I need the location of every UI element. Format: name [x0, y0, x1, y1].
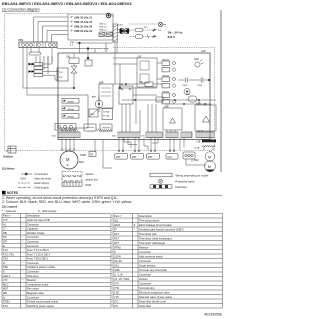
- svg-text:Connector: Connector: [139, 281, 151, 285]
- pilot lamp HAP: [194, 58, 203, 67]
- svg-text:M1F: M1F: [3, 287, 9, 291]
- fuse F3U on bus: [139, 82, 153, 87]
- capacitor C505: [178, 78, 197, 88]
- svg-text:4D139955E: 4D139955E: [204, 313, 223, 317]
- svg-text:Pilot lamp: Pilot lamp: [27, 274, 39, 278]
- connector row X5M:A: [70, 16, 93, 20]
- svg-text:DC: DC: [3, 235, 7, 239]
- terminal strip S70: [141, 132, 163, 138]
- svg-text:Q1DI: Q1DI: [118, 25, 123, 27]
- svg-text:X5M:3-4: X5M:3-4: [99, 27, 107, 29]
- svg-text:: switch box: : switch box: [84, 177, 99, 181]
- svg-text:C505: C505: [182, 85, 188, 87]
- svg-text:R3T: R3T: [148, 156, 153, 159]
- capacitor C506: [197, 78, 211, 88]
- svg-text:E: E: [3, 244, 5, 248]
- svg-text:S1PH: S1PH: [114, 254, 121, 258]
- svg-text:Surge arrestor: Surge arrestor: [139, 263, 156, 267]
- legend wiring depending on model: [150, 173, 209, 177]
- magnetic relay contacts row: [55, 124, 76, 131]
- svg-text:Z5C: Z5C: [186, 94, 191, 96]
- connector pair X802M: [162, 76, 176, 88]
- svg-text:Fuse T 30 A 250 V: Fuse T 30 A 250 V: [27, 257, 49, 261]
- svg-text:PS: PS: [90, 154, 94, 157]
- svg-text:Connector: Connector: [27, 295, 39, 299]
- svg-text:#: #: [134, 223, 136, 227]
- svg-text:X806A: X806A: [67, 115, 74, 118]
- svg-text:F3U: F3U: [3, 257, 8, 261]
- wires to bottom terminal strips: [62, 87, 156, 132]
- svg-text:*: *: [22, 222, 23, 226]
- main PCB box A1P: [58, 50, 210, 139]
- svg-text:AL: AL: [3, 222, 7, 226]
- svg-text:MR: MR: [3, 291, 7, 295]
- svg-text:Reactor: Reactor: [27, 278, 36, 282]
- scan edge gray line: [220, 10, 222, 172]
- svg-text:Part n°: Part n°: [3, 214, 11, 218]
- wires X5M down to connector rows: [23, 48, 58, 95]
- wire bundle from UI box to X5M: [34, 17, 69, 42]
- svg-text:2. Colours: BLK: black; RED: r: 2. Colours: BLK: black; RED: red; BLU: b…: [2, 200, 132, 204]
- svg-text:Z1C: Z1C: [59, 72, 64, 74]
- svg-text:M: M: [66, 157, 70, 162]
- svg-text:R*: R*: [114, 227, 117, 231]
- svg-text:RTH(): RTH(): [114, 245, 121, 249]
- svg-text:X*A: X*A: [114, 281, 119, 285]
- svg-text:EBLA04-08EV3 / EDLA04-08EV3 /: EBLA04-08EV3 / EDLA04-08EV3 / EBLA04-08E…: [2, 1, 132, 6]
- svg-text:(1) Connection diagram: (1) Connection diagram: [2, 8, 40, 12]
- svg-text:Y1E: Y1E: [114, 290, 119, 294]
- field supply line N: [129, 35, 175, 39]
- svg-text:Z*C: Z*C: [114, 299, 119, 303]
- diode module V2R: [163, 100, 182, 132]
- thermistor R2T: [131, 138, 144, 160]
- svg-text:F1U: F1U: [3, 248, 8, 252]
- parts table right: [113, 214, 223, 309]
- svg-text:R2T: R2T: [114, 236, 119, 240]
- svg-text:High pressure switch: High pressure switch: [139, 254, 164, 258]
- svg-text:Intelligent power module: Intelligent power module: [27, 265, 56, 269]
- svg-text:Fuse T 6,3 A 250 V: Fuse T 6,3 A 250 V: [27, 248, 49, 252]
- high pressure switch S1PH: [80, 152, 96, 158]
- svg-text:HAP: HAP: [194, 58, 199, 61]
- jumper below X5M: [29, 48, 41, 55]
- user interface connection box: [68, 14, 113, 40]
- parts table left: [2, 214, 111, 309]
- svg-text:Connector: Connector: [139, 259, 151, 263]
- wires right column: [180, 138, 213, 165]
- protective earth symbol on X2M wire: [104, 44, 109, 52]
- legend protective earth: [159, 179, 195, 183]
- svg-text:X771A: X771A: [103, 115, 110, 118]
- svg-text:# : field supply: # : field supply: [38, 209, 57, 213]
- svg-text:Z*F: Z*F: [114, 304, 119, 308]
- svg-text:Connector: Connector: [27, 270, 39, 274]
- svg-text:Insulated gate bipolar transis: Insulated gate bipolar transistor (IGBT): [139, 227, 184, 231]
- svg-text:Thermal protector: Thermal protector: [139, 218, 160, 222]
- svg-text:M: M: [208, 156, 211, 160]
- connector row X5M:D: [70, 30, 93, 34]
- svg-text:U, V, W: U, V, W: [114, 272, 123, 276]
- svg-text:Outdoor: Outdoor: [3, 155, 13, 159]
- thermistor R3T: [147, 138, 160, 160]
- svg-text:Part n°: Part n°: [114, 214, 122, 218]
- svg-text:Magnetic relay: Magnetic relay: [27, 291, 45, 295]
- svg-text:L*R: L*R: [3, 278, 7, 282]
- svg-text:Noise filter: Noise filter: [139, 304, 151, 308]
- svg-text:DB: DB: [3, 231, 7, 235]
- svg-text:Capacitor: Capacitor: [27, 227, 38, 231]
- svg-text:M1F: M1F: [194, 159, 199, 162]
- svg-text:UI: UI: [112, 16, 114, 18]
- compressor motor M1C: [60, 151, 84, 169]
- svg-text:Thermistor (air): Thermistor (air): [139, 232, 157, 236]
- svg-text:C506: C506: [197, 85, 203, 87]
- svg-text:: Main terminal: : Main terminal: [33, 177, 51, 181]
- legend switch box: [62, 177, 99, 182]
- svg-text:PHC: PHC: [90, 114, 95, 116]
- svg-text:Q1DI: Q1DI: [114, 223, 120, 227]
- connector block rows with poles: [29, 63, 43, 77]
- fan motor M1F: [194, 152, 215, 172]
- sub box with connectors X804A: [58, 95, 88, 128]
- svg-text:Y1S: Y1S: [114, 295, 119, 299]
- svg-text:Connector: Connector: [27, 222, 39, 226]
- svg-text:R1T: R1T: [116, 156, 121, 159]
- svg-text:PIM: PIM: [3, 265, 8, 269]
- field wiring terminal X1M vertical strip: [113, 24, 118, 42]
- svg-text:S20: S20: [52, 136, 57, 138]
- svg-text:N: N: [3, 295, 5, 299]
- svg-text:X*M: X*M: [114, 286, 119, 290]
- connector X21A: [183, 152, 195, 159]
- svg-text:S: S: [114, 250, 116, 254]
- svg-text:PCB1: PCB1: [3, 300, 10, 304]
- svg-text:3G: 3G: [158, 30, 161, 32]
- svg-text:X2M:1-2: X2M:1-2: [99, 24, 107, 26]
- svg-text:DP: DP: [3, 239, 7, 243]
- mini terminal strip in UI box: [99, 24, 113, 37]
- svg-text:Varistor: Varistor: [139, 277, 148, 281]
- svg-text:C*: C*: [3, 227, 6, 231]
- terminal strip X1A: [166, 132, 178, 138]
- wires strips to compressor: [61, 138, 75, 151]
- svg-text:Rectifier bridge: Rectifier bridge: [27, 231, 45, 235]
- terminal strip X5M: [18, 38, 57, 48]
- svg-text:*: *: [22, 261, 23, 265]
- svg-text:X5M:34-34a-35: X5M:34-34a-35: [74, 21, 93, 24]
- svg-text:Terminal strip: Terminal strip: [139, 286, 155, 290]
- svg-text:Connector: Connector: [27, 239, 39, 243]
- dc bus wires: [122, 97, 216, 105]
- svg-text:Noise filter (ferrite core): Noise filter (ferrite core): [139, 299, 166, 303]
- svg-text:Printed circuit board (main): Printed circuit board (main): [27, 300, 58, 304]
- legend earth wiring: [18, 181, 49, 185]
- terminal strip S40: [112, 132, 140, 138]
- connector row X5M:C: [70, 25, 93, 29]
- svg-text:* : optional: * : optional: [2, 209, 16, 213]
- connector comb hatch left: [60, 129, 112, 132]
- svg-text:Switching power supply: Switching power supply: [27, 304, 55, 308]
- svg-text:M: M: [208, 165, 211, 169]
- svg-text:H: H: [3, 261, 5, 265]
- svg-text:Resistor: Resistor: [139, 245, 149, 249]
- svg-text:Connector: Connector: [27, 235, 39, 239]
- svg-text:Compressor motor: Compressor motor: [27, 282, 49, 286]
- notes section: [2, 191, 222, 213]
- label X2M and wires to X1M: [57, 42, 113, 53]
- svg-text:Connector: Connector: [139, 272, 151, 276]
- svg-text:: Field wire: : Field wire: [174, 185, 187, 189]
- svg-text:Earth leakage circuit breaker: Earth leakage circuit breaker: [139, 223, 172, 227]
- svg-text:S70: S70: [141, 136, 146, 138]
- svg-text:S40: S40: [112, 136, 117, 138]
- expansion valve Y1E coil: [194, 140, 216, 150]
- svg-text:Fuse T 3,15 A 250 V: Fuse T 3,15 A 250 V: [27, 252, 51, 256]
- svg-text:Fan motor: Fan motor: [27, 287, 39, 291]
- svg-text:S1PH: S1PH: [80, 154, 87, 157]
- wiring schematic: [3, 13, 216, 172]
- svg-text:S2~S0: S2~S0: [114, 259, 122, 263]
- earth leakage circuit breaker Q1DI: [118, 25, 129, 35]
- NOTES header bar: [2, 191, 6, 195]
- svg-text:X5M:30-30a-31: X5M:30-30a-31: [74, 17, 93, 20]
- svg-text:230 V: 230 V: [168, 35, 176, 39]
- svg-text:Thermistor (discharge): Thermistor (discharge): [139, 241, 165, 245]
- svg-text:V1, V8, V901: V1, V8, V901: [114, 277, 130, 281]
- svg-text:: Protective earth: : Protective earth: [174, 179, 195, 183]
- svg-text:F1U, F2U: F1U, F2U: [3, 252, 14, 256]
- svg-text:: Earth wiring: : Earth wiring: [33, 181, 49, 185]
- connector pair X803M: [162, 92, 176, 104]
- svg-text:: PCB: : PCB: [84, 183, 91, 187]
- svg-text:Connector: Connector: [27, 261, 39, 265]
- svg-text:: Field supply: : Field supply: [33, 186, 49, 190]
- svg-text:*: *: [22, 244, 23, 248]
- horizontal bus y84: [113, 53, 163, 86]
- svg-text:Terminal strip fixed plate: Terminal strip fixed plate: [139, 268, 168, 272]
- svg-text:Electronic expansion valve: Electronic expansion valve: [139, 290, 170, 294]
- svg-text:Connector: Connector: [27, 244, 39, 248]
- svg-text:8-9: 8-9: [70, 45, 74, 47]
- svg-text:PS1: PS1: [3, 304, 8, 308]
- connector pair X801M: [162, 60, 176, 72]
- legend main terminal: [20, 177, 51, 181]
- svg-text:M1C: M1C: [79, 161, 84, 164]
- svg-text:R3T: R3T: [114, 241, 119, 245]
- thermal protector Q1L: [166, 138, 178, 160]
- svg-text:*: *: [22, 278, 23, 282]
- legend field wire: [150, 185, 187, 189]
- svg-text:X5M:35-35a-36: X5M:35-35a-36: [74, 26, 93, 29]
- terminal strip X3A: [196, 131, 214, 138]
- reactor L1R: [137, 56, 157, 88]
- legend PCB: [62, 182, 91, 187]
- terminal strip S20: [52, 132, 80, 138]
- surge arrestor SA1: [58, 53, 79, 89]
- svg-text:Q1L: Q1L: [114, 218, 119, 222]
- relay K3R box: [100, 124, 112, 131]
- terminal strip X2A: [181, 132, 192, 138]
- svg-text:Z2C: Z2C: [59, 77, 64, 79]
- svg-text:*: *: [22, 270, 23, 274]
- svg-text:K: K: [3, 270, 5, 274]
- power module V1R: [195, 100, 216, 132]
- relay K2R box: [84, 124, 96, 131]
- ferrite core Z5C: [186, 94, 197, 102]
- svg-text:Solenoid valve (4-way valve): Solenoid valve (4-way valve): [139, 295, 172, 299]
- svg-text:F3U: F3U: [139, 82, 144, 84]
- svg-text:X804A: X804A: [67, 100, 74, 103]
- legend option: [62, 172, 94, 177]
- svg-text:R2T: R2T: [132, 156, 137, 159]
- connector block X770A: [102, 109, 113, 120]
- svg-text:Connector: Connector: [139, 250, 151, 254]
- svg-text:NOTES: NOTES: [7, 191, 18, 195]
- thermistor R1T: [115, 138, 128, 160]
- svg-text:A6P: A6P: [92, 96, 97, 99]
- legend connection symbol: [21, 172, 49, 176]
- component K1R near top: [85, 53, 92, 66]
- svg-text:X8M:5-6: X8M:5-6: [99, 30, 107, 32]
- svg-text:M1C: M1C: [3, 282, 9, 286]
- svg-text:: Option: : Option: [84, 172, 94, 176]
- svg-text:X2M: X2M: [70, 42, 75, 44]
- svg-text:Description: Description: [27, 214, 41, 218]
- ferrite core Z1C right: [184, 89, 190, 95]
- svg-text:*: *: [22, 227, 23, 231]
- svg-text:3~: 3~: [67, 163, 71, 167]
- protective earth supply line: [129, 22, 166, 26]
- wires to pressure switch: [95, 140, 112, 169]
- legend section: [2, 167, 209, 190]
- connector circle A6P: [92, 95, 103, 112]
- svg-text:Y1E: Y1E: [196, 141, 201, 144]
- wire bus top: [113, 42, 137, 64]
- optocoupler PHC1: [89, 109, 98, 117]
- svg-text:Q1L: Q1L: [168, 156, 173, 159]
- svg-text:X5M:29-29a-30: X5M:29-29a-30: [74, 30, 93, 33]
- svg-text:X21A: X21A: [194, 147, 200, 150]
- svg-text:X805A: X805A: [67, 108, 74, 111]
- svg-text:Hydro kit main PCB: Hydro kit main PCB: [27, 218, 50, 222]
- svg-text:F1U: F1U: [144, 27, 148, 29]
- svg-text:A*P: A*P: [3, 218, 8, 222]
- field supply line L: [129, 27, 183, 35]
- PCB A5P tall box: [99, 82, 113, 109]
- svg-text:*: *: [134, 227, 135, 231]
- outdoor unit icon: [3, 146, 16, 159]
- svg-text:R1T: R1T: [114, 232, 119, 236]
- switch box dashed border: [5, 14, 215, 151]
- svg-text:Description: Description: [139, 214, 153, 218]
- connector row X5M:B: [70, 21, 93, 25]
- noise filter box A8P: [57, 68, 68, 81]
- wires reactor to connectors: [119, 63, 162, 95]
- svg-text:Thermistor (heat exchanger): Thermistor (heat exchanger): [139, 236, 172, 240]
- svg-text:X1M: X1M: [20, 177, 26, 181]
- svg-text:: Wiring depending on model: : Wiring depending on model: [174, 174, 209, 178]
- buzzer symbol in UI box: [106, 13, 114, 18]
- svg-text:SA1: SA1: [114, 263, 119, 267]
- svg-text:X5M: X5M: [18, 38, 23, 42]
- wires connector rows to PCB: [43, 56, 59, 80]
- svg-text:(2) Notes: (2) Notes: [2, 167, 15, 171]
- wire elbows below strips: [124, 138, 158, 150]
- svg-text:*: *: [22, 235, 23, 239]
- svg-text:LED A: LED A: [3, 274, 11, 278]
- svg-text:SHB: SHB: [114, 268, 120, 272]
- legend field supply: [18, 186, 49, 190]
- svg-text:X770A: X770A: [103, 111, 110, 114]
- reactor L2R: [119, 84, 136, 104]
- svg-text:*: *: [22, 239, 23, 243]
- svg-text:: Connection: : Connection: [33, 172, 49, 176]
- svg-text:L2R: L2R: [119, 84, 123, 86]
